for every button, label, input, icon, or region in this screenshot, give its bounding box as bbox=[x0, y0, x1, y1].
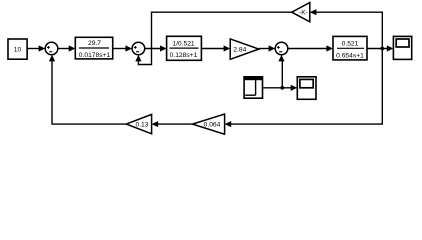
svg-text:0.064: 0.064 bbox=[204, 122, 221, 129]
svg-text:0.128s+1: 0.128s+1 bbox=[170, 52, 198, 59]
svg-text:29.7: 29.7 bbox=[88, 40, 101, 47]
transfer function TF3 0.521/(0.654s+1) bbox=[333, 36, 367, 60]
wire sum2 to TF2 bbox=[145, 45, 167, 51]
transfer function TF2 1/0.521/(0.128s+1) bbox=[167, 36, 202, 60]
svg-text:0.13: 0.13 bbox=[135, 122, 148, 129]
junction node at TF3 output bbox=[380, 47, 384, 51]
gain block 0.13 (points left) bbox=[126, 114, 151, 133]
gain block -K- (top feedback, points left) bbox=[292, 3, 310, 22]
step block bbox=[244, 77, 262, 98]
sum junction 2 bbox=[132, 42, 145, 55]
scope1 block (right) bbox=[393, 36, 411, 59]
junction node at step output bbox=[280, 86, 284, 90]
wire bottom feedback: node down and left to gain 0.064 bbox=[225, 49, 383, 128]
wire top feedback: node up and left to gain -K- bbox=[310, 9, 383, 48]
wire step node to sum3 bottom bbox=[278, 55, 284, 88]
sum junction 1 bbox=[45, 42, 58, 55]
svg-text:0.0178s+1: 0.0178s+1 bbox=[79, 52, 111, 59]
wire gain 0.064 to gain 0.13 bbox=[152, 121, 193, 127]
svg-text:10: 10 bbox=[14, 47, 22, 54]
svg-text:2.84: 2.84 bbox=[233, 46, 246, 53]
wire TF1 to sum2 bbox=[113, 45, 132, 51]
wire sum3 to TF3 bbox=[288, 45, 333, 51]
gain block 2.84 bbox=[230, 39, 259, 59]
wire gain 2.84 to sum3 bbox=[259, 45, 275, 51]
gain block 0.064 (points left) bbox=[192, 114, 224, 134]
wire constant to sum1 bbox=[27, 45, 45, 51]
wire gain 0.13 to sum1 bottom bbox=[49, 55, 126, 124]
wire TF2 to gain 2.84 bbox=[201, 45, 230, 51]
wire TF3 to scope1 bbox=[367, 45, 393, 51]
wire sum1 to TF1 bbox=[58, 45, 76, 51]
sum junction 3 bbox=[275, 42, 288, 55]
constant block "10" bbox=[8, 39, 27, 59]
svg-text:-K-: -K- bbox=[299, 9, 308, 16]
svg-text:0.654s+1: 0.654s+1 bbox=[336, 52, 364, 59]
wire step to scope2 bbox=[263, 85, 298, 91]
wire gain -K- to sum2 bottom bbox=[135, 12, 291, 64]
transfer function TF1 29.7/(0.0178s+1) bbox=[75, 37, 112, 59]
svg-text:1/0.521: 1/0.521 bbox=[172, 40, 195, 47]
scope2 block (bottom) bbox=[297, 77, 316, 100]
svg-text:0.521: 0.521 bbox=[342, 40, 359, 47]
